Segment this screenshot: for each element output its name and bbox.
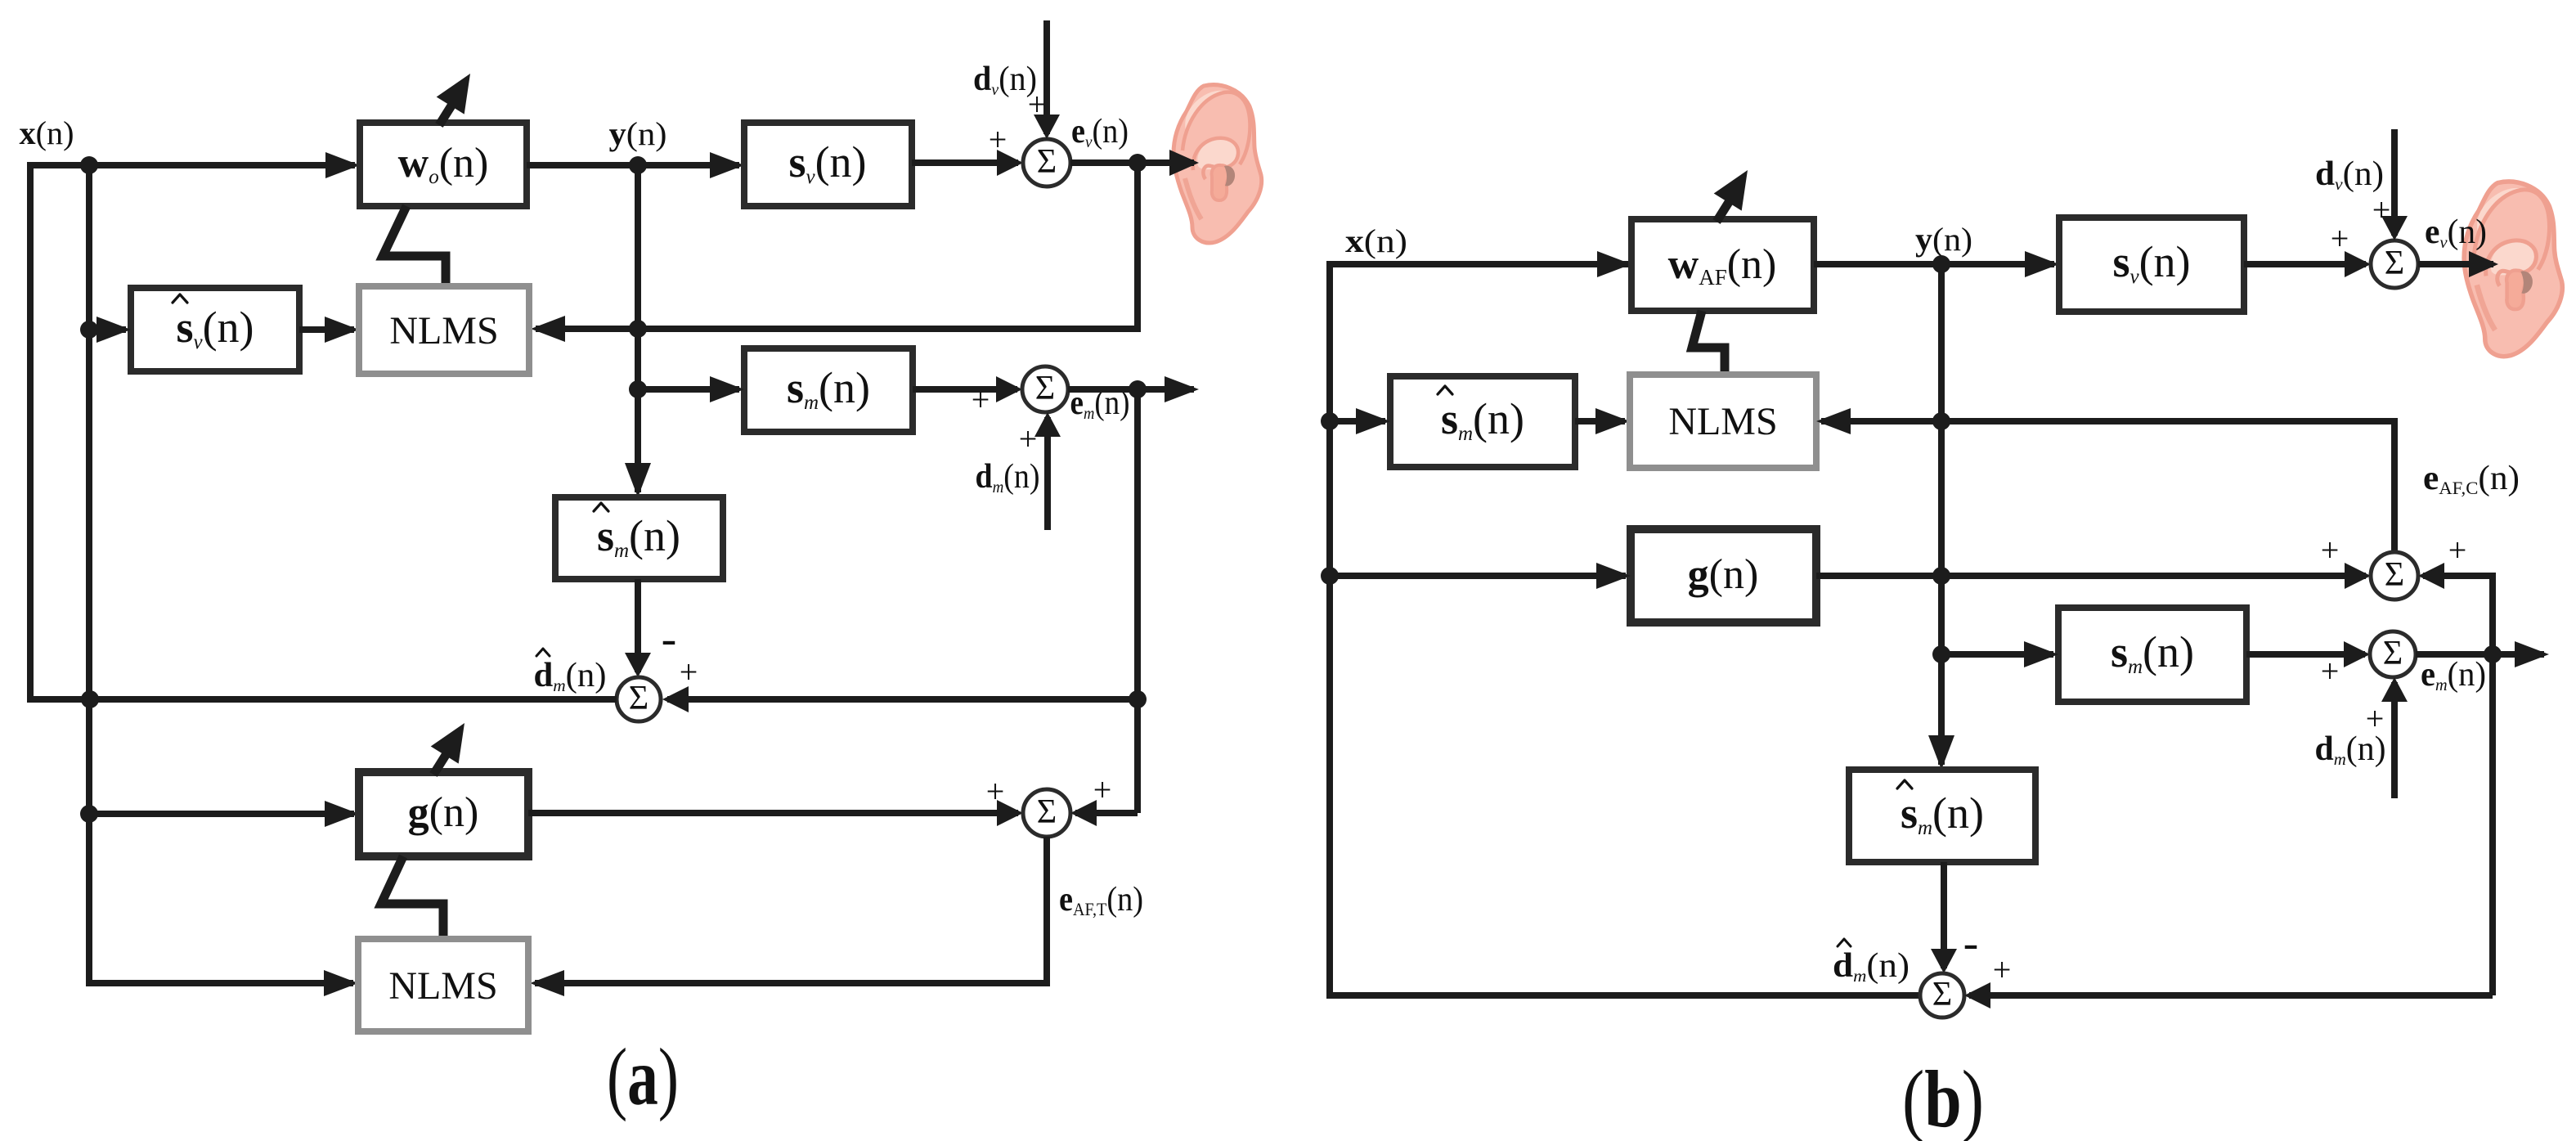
svg-text:sv(n): sv(n)	[176, 303, 254, 353]
wire y to s_m (b)	[1941, 641, 2058, 667]
plus sign into sum4 right (a)	[1093, 771, 1112, 808]
svg-text:sm(n): sm(n)	[597, 511, 680, 562]
svg-text:+: +	[986, 773, 1005, 810]
ear icon (b)	[2464, 182, 2562, 357]
svg-text:+: +	[2331, 220, 2349, 257]
svg-text:-: -	[1963, 918, 1979, 968]
summing node sum1 e_v (b)	[2371, 240, 2418, 288]
wire g to sum5 (b)	[1816, 563, 2371, 589]
filter box w_AF(n) (b)	[1631, 219, 1814, 311]
label e_v(n) (b)	[2425, 213, 2487, 252]
wire s_v-hat to NLMS (a)	[299, 317, 359, 343]
wire e_m into sum5 (b)	[2418, 563, 2493, 995]
plus sign into sum1 (a)	[989, 121, 1008, 158]
plus sign into sum2 (a)	[972, 381, 990, 418]
wire s_m to sum2 (a)	[913, 376, 1022, 402]
junction y(n) (a)	[629, 156, 647, 174]
wire x to g (a)	[89, 801, 359, 827]
plus sign into sum3 right (a)	[680, 654, 698, 690]
speaker path box s_v(n) (b)	[2059, 218, 2244, 312]
wire x(n) second vertical (a)	[89, 165, 358, 996]
svg-text:+: +	[1019, 420, 1038, 457]
svg-text:+: +	[1028, 86, 1047, 123]
wire e_m feedback vertical (a)	[1134, 389, 1141, 813]
estimated box s_m-hat top (b)	[1390, 376, 1575, 467]
junction y-vertical at g row (b)	[1932, 567, 1950, 585]
plus sign into sum5 left (b)	[2321, 532, 2340, 568]
summing node sum7 dhat_m (b)	[1920, 973, 1964, 1017]
zigzag w_o to NLMS (a)	[383, 206, 446, 290]
estimated mic box s_m-hat (a)	[555, 497, 723, 579]
junction y-vertical at NLMS feedback (a)	[629, 320, 647, 338]
adaptation arrow on w_o (a)	[437, 74, 470, 125]
label d_v(n) (b)	[2315, 155, 2384, 194]
wire x to g (b)	[1330, 563, 1631, 589]
junction x(n) top (a)	[80, 156, 98, 174]
caption (a)	[607, 1031, 679, 1122]
label dhat_m(n) (a)	[534, 649, 607, 695]
junction x branch to g (b)	[1321, 567, 1339, 585]
plus sign into sum5 right (b)	[2448, 532, 2467, 568]
wire x(n) top and left branch (b)	[1330, 251, 1923, 995]
wire x to s_v-hat (a)	[89, 317, 131, 343]
svg-text:y(n): y(n)	[609, 115, 667, 152]
wire y(n) vertical down (a)	[625, 165, 651, 497]
plus sign into sum7 right (b)	[1993, 951, 2012, 988]
summing node sum5 e_AFC (b)	[2371, 552, 2418, 600]
minus sign into sum7 (b)	[1963, 918, 1979, 968]
junction e_m feedback (a)	[1129, 380, 1147, 398]
wire x to s_m-hat (b)	[1330, 408, 1390, 434]
zigzag g to NLMS2 (a)	[381, 856, 443, 942]
svg-text:ev(n): ev(n)	[1071, 113, 1129, 151]
junction e_v feedback (a)	[1129, 154, 1147, 172]
wire e_m feedback into sum4 (a)	[1070, 800, 1138, 826]
wire d_m into sum6 (b)	[2381, 677, 2408, 798]
svg-text:Σ: Σ	[2383, 635, 2403, 672]
svg-text:+: +	[2372, 191, 2391, 228]
svg-text:dv(n): dv(n)	[2315, 155, 2384, 194]
svg-text:sm(n): sm(n)	[1441, 394, 1524, 445]
junction e_m feedback at dhat row (a)	[1129, 690, 1147, 708]
filter box w_o(n) (a)	[360, 123, 527, 206]
label d_m(n) (a)	[976, 458, 1040, 496]
node x(n) input label (b)	[1345, 222, 1407, 259]
wire sum1 to ear (a)	[1070, 150, 1199, 176]
summing node sum6 e_m (b)	[2370, 631, 2416, 677]
svg-text:+: +	[972, 381, 990, 418]
label e_m(n) (b)	[2421, 656, 2486, 694]
svg-text:Σ: Σ	[1035, 370, 1055, 407]
wire s_m-hat output to sum3 (a)	[625, 579, 651, 677]
feedback box g(n) (b)	[1631, 529, 1816, 622]
node y(n) label (a)	[609, 115, 667, 152]
wire sum1 to ear (b)	[2418, 251, 2498, 277]
svg-text:dm(n): dm(n)	[976, 458, 1040, 496]
svg-text:Σ: Σ	[2385, 245, 2404, 282]
svg-text:(a): (a)	[607, 1031, 679, 1122]
wire d_v(n) into sum1 (a)	[1034, 20, 1060, 139]
label e_AF,T(n) (a)	[1059, 881, 1143, 919]
wire y branch to s_m (a)	[638, 376, 744, 402]
wire sum4 output to NLMS2 (a)	[530, 837, 1047, 996]
plus sign d_m (b)	[2366, 700, 2385, 737]
wire s_v to sum1 (b)	[2244, 251, 2371, 277]
estimated mic box s_m-hat bottom (b)	[1849, 770, 2035, 862]
wire s_m to sum6 (b)	[2246, 641, 2370, 667]
label e_m(n) (a)	[1070, 384, 1130, 423]
wire d_m(n) into sum2 (a)	[1034, 412, 1061, 530]
wire y(n) from w_o to s_v (a)	[527, 152, 744, 178]
svg-text:+: +	[2448, 532, 2467, 568]
svg-text:+: +	[2321, 532, 2340, 568]
svg-text:+: +	[1093, 771, 1112, 808]
junction e_m feedback (b)	[2484, 645, 2502, 663]
mic path box s_m(n) (a)	[744, 348, 913, 432]
label e_v(n) (a)	[1071, 113, 1129, 151]
svg-text:Σ: Σ	[629, 680, 648, 717]
svg-text:-: -	[662, 613, 677, 664]
wire e_v feedback down-left into NLMS (a)	[531, 163, 1138, 342]
wire sum2 output e_m (a)	[1068, 376, 1199, 402]
junction dhat at second vertical (a)	[81, 690, 99, 708]
speaker path box s_v(n) (a)	[744, 123, 912, 206]
mic path box s_m(n) (b)	[2058, 608, 2246, 702]
svg-text:y(n): y(n)	[1915, 221, 1972, 258]
svg-text:sm(n): sm(n)	[2111, 627, 2194, 678]
svg-text:+: +	[2321, 653, 2340, 690]
label e_AF,C(n) (b)	[2423, 460, 2520, 498]
wire feedback into sum3 (a)	[662, 686, 1138, 712]
zigzag w_AF to NLMS (b)	[1692, 311, 1725, 378]
minus sign into sum3 (a)	[662, 613, 677, 664]
svg-text:sm(n): sm(n)	[1901, 788, 1984, 839]
svg-text:g(n): g(n)	[1688, 551, 1759, 598]
label d_v(n) (a)	[973, 61, 1037, 99]
summing node sum3 dhat_m (a)	[617, 677, 661, 721]
caption (b)	[1902, 1053, 1984, 1141]
plus sign d_m (a)	[1019, 420, 1038, 457]
wire s_v to sum1 (a)	[912, 150, 1023, 176]
svg-text:NLMS: NLMS	[389, 309, 498, 353]
svg-text:wo(n): wo(n)	[398, 140, 489, 188]
node y(n) label (b)	[1915, 221, 1972, 258]
junction y-vertical at s_m row (a)	[629, 380, 647, 398]
node x(n) input label (a)	[20, 115, 74, 151]
junction x branch to s_v-hat (a)	[80, 321, 98, 339]
svg-text:sm(n): sm(n)	[787, 363, 870, 414]
svg-text:g(n): g(n)	[408, 789, 479, 836]
wire x(n) left branch L-path (a)	[30, 162, 85, 699]
svg-text:Σ: Σ	[1037, 793, 1057, 831]
svg-text:dm(n): dm(n)	[1833, 947, 1910, 986]
wire e_AFC into NLMS (b)	[1816, 408, 2394, 552]
junction x branch to s_m-hat top (b)	[1321, 412, 1339, 430]
ear icon (a)	[1174, 85, 1262, 243]
wire y(n) from w_AF to s_v (b)	[1814, 251, 2059, 277]
svg-text:Σ: Σ	[1932, 976, 1952, 1013]
svg-text:+: +	[680, 654, 698, 690]
junction y(n) (b)	[1932, 255, 1950, 273]
svg-text:+: +	[1993, 951, 2012, 988]
junction y-vertical at e_AFC row (b)	[1932, 412, 1950, 430]
wire y(n) vertical down (b)	[1928, 264, 1954, 770]
summing node sum4 e_AFT (a)	[1023, 789, 1070, 837]
svg-text:x(n): x(n)	[20, 115, 74, 151]
summing node sum1 e_v (a)	[1023, 139, 1070, 186]
NLMS box (b)	[1630, 375, 1816, 468]
svg-text:NLMS: NLMS	[1668, 400, 1777, 443]
label dhat_m(n) (b)	[1833, 939, 1910, 986]
plus sign into sum1 (b)	[2331, 220, 2349, 257]
wire x(n) top horizontal (a)	[27, 152, 360, 178]
junction y-vertical at s_m row (b)	[1932, 645, 1950, 663]
feedback path box g(n) (a)	[359, 772, 528, 856]
svg-text:ev(n): ev(n)	[2425, 213, 2487, 252]
svg-text:+: +	[989, 121, 1008, 158]
estimated path box s_v-hat (a)	[131, 288, 299, 371]
wire s_m-hat to NLMS (b)	[1575, 408, 1630, 434]
svg-text:em(n): em(n)	[2421, 656, 2486, 694]
wire s_m-hat to sum7 (b)	[1931, 862, 1957, 973]
adaptation arrow on g (a)	[431, 723, 464, 775]
svg-text:sv(n): sv(n)	[2112, 237, 2190, 288]
adaptation arrow on w_AF (b)	[1714, 170, 1748, 222]
svg-text:x(n): x(n)	[1345, 222, 1407, 259]
NLMS box 2 (a)	[358, 939, 528, 1031]
svg-text:NLMS: NLMS	[388, 964, 497, 1008]
svg-text:+: +	[2366, 700, 2385, 737]
plus sign into sum6 (b)	[2321, 653, 2340, 690]
wire d_v into sum1 (b)	[2381, 129, 2408, 240]
wire g to sum4 (a)	[528, 800, 1023, 826]
svg-text:Σ: Σ	[1037, 143, 1057, 181]
junction x branch to g (a)	[80, 805, 98, 823]
plus sign d_v (b)	[2372, 191, 2391, 228]
svg-text:Σ: Σ	[2385, 556, 2404, 594]
wire sum3 output left (a)	[90, 696, 617, 703]
wire e_m feedback into sum7 (b)	[1964, 982, 2493, 1008]
plus sign into sum4 left (a)	[986, 773, 1005, 810]
label d_m(n) (b)	[2315, 730, 2386, 769]
wire sum6 output e_m (b)	[2416, 641, 2549, 667]
summing node sum2 e_m (a)	[1022, 366, 1068, 412]
plus sign d_v (a)	[1028, 86, 1047, 123]
svg-text:sv(n): sv(n)	[788, 137, 866, 188]
NLMS box 1 (a)	[359, 286, 529, 374]
svg-text:dm(n): dm(n)	[534, 657, 607, 695]
svg-text:(b): (b)	[1902, 1053, 1984, 1141]
